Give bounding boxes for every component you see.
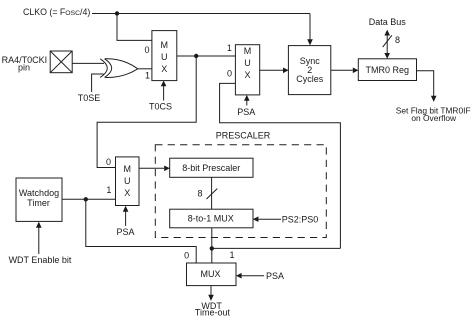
- svg-text:pin: pin: [18, 63, 30, 73]
- mux MUX2 PSA select: [235, 45, 259, 95]
- svg-text:M: M: [244, 46, 252, 56]
- svg-text:Cycles: Cycles: [296, 74, 324, 84]
- wire prescaler output loop to MUX2 input 0: [220, 83, 341, 248]
- label MUX3 input 0: [106, 157, 111, 167]
- svg-text:M: M: [123, 164, 131, 174]
- svg-text:8: 8: [197, 189, 202, 199]
- svg-text:8-to-1 MUX: 8-to-1 MUX: [188, 213, 234, 223]
- wire WDT junction to bottom MUX input 0: [86, 199, 196, 263]
- label PSA under MUX3: [116, 227, 134, 237]
- label PSA right of bottom MUX: [266, 271, 284, 281]
- wire T0CS arrow to MUX1: [163, 86, 165, 101]
- node prescaler output junction: [210, 246, 214, 250]
- wire 8-to-1 MUX output down to bottom MUX input 1: [211, 228, 213, 263]
- svg-text:X: X: [244, 70, 250, 80]
- svg-text:Data Bus: Data Bus: [369, 17, 407, 27]
- label T0CS: [149, 101, 172, 111]
- label CLKO (= Fosc/4): [23, 7, 90, 17]
- svg-text:PSA: PSA: [116, 227, 134, 237]
- svg-text:CLKO (= FOSC/4): CLKO (= FOSC/4): [23, 7, 90, 17]
- svg-text:TMR0 Reg: TMR0 Reg: [366, 65, 410, 75]
- box 8-to-1 MUX: [170, 209, 253, 228]
- svg-text:PRESCALER: PRESCALER: [216, 130, 271, 140]
- wire WDT time-out arrow: [210, 286, 212, 296]
- wire PSA arrow to MUX3: [125, 211, 127, 226]
- box prescaler dashed boundary: [155, 145, 326, 238]
- svg-text:U: U: [161, 52, 168, 62]
- label Set Flag bit TMR0IF on Overflow: [396, 106, 471, 123]
- bus slash 8: [383, 35, 392, 47]
- svg-text:8-bit Prescaler: 8-bit Prescaler: [182, 163, 240, 173]
- svg-text:T0CS: T0CS: [149, 101, 172, 111]
- mux MUX3 PSA select: [116, 157, 140, 206]
- mux bottom MUX PSA select: [187, 263, 237, 286]
- wire CLKO junction to MUX1 input 0: [117, 14, 152, 41]
- svg-text:PS2:PS0: PS2:PS0: [282, 214, 319, 224]
- svg-text:M: M: [161, 40, 169, 50]
- svg-text:X: X: [124, 188, 130, 198]
- wire CLKO horizontal: [92, 13, 310, 15]
- mux MUX1 T0CS select: [152, 31, 177, 81]
- svg-text:PSA: PSA: [266, 271, 284, 281]
- svg-text:on Overflow: on Overflow: [411, 113, 457, 123]
- svg-text:MUX: MUX: [201, 269, 221, 279]
- label PSA under MUX2: [237, 107, 255, 117]
- svg-text:Timer: Timer: [27, 198, 50, 208]
- wire prescaler output junction right: [212, 247, 341, 249]
- wire TMR0 output to overflow flag arrow: [417, 71, 434, 97]
- label MUX2 input 1: [227, 43, 232, 53]
- box Sync 2 Cycles: [288, 46, 330, 95]
- wire T0SE to XOR lower input: [92, 74, 104, 92]
- svg-text:1: 1: [229, 250, 234, 260]
- wire PSA arrow to bottom MUX: [242, 275, 264, 277]
- wire WDT Enable arrow: [38, 227, 40, 254]
- wire pin box to XOR input: [72, 62, 104, 64]
- wire PS2:PS0 arrow to 8-to-1 MUX: [258, 218, 281, 220]
- svg-text:U: U: [244, 58, 251, 68]
- svg-text:8: 8: [395, 35, 400, 45]
- label Data Bus: [369, 17, 407, 27]
- label RA4/T0CKI pin: [2, 55, 48, 72]
- wire MUX2 output to Sync with arrow: [260, 69, 283, 71]
- svg-text:Watchdog: Watchdog: [19, 188, 59, 198]
- svg-text:WDT Enable bit: WDT Enable bit: [9, 255, 72, 265]
- bus Data Bus double arrow: [386, 35, 388, 54]
- bus 8-bit Prescaler to 8-to-1 MUX: [211, 177, 213, 209]
- wire junction down-left to MUX3 input 0: [97, 56, 196, 168]
- wire Sync to TMR0 with arrow: [331, 69, 353, 71]
- label bottom MUX input 1: [229, 250, 234, 260]
- wire MUX3 to 8-bit Prescaler with arrow: [139, 167, 164, 169]
- pin RA4/T0CKI box: [50, 51, 72, 73]
- wire XOR output to MUX1 input 1: [138, 68, 152, 70]
- svg-text:0: 0: [144, 45, 149, 55]
- box Watchdog Timer: [16, 178, 62, 221]
- label MUX3 input 1: [106, 185, 111, 195]
- label WDT Time-out: [195, 301, 231, 318]
- svg-text:X: X: [161, 64, 167, 74]
- node CLKO junction: [115, 11, 119, 15]
- label MUX1 input 0: [144, 45, 149, 55]
- svg-text:Time-out: Time-out: [195, 308, 231, 318]
- label bottom MUX input 0: [184, 251, 189, 261]
- wire CLKO to Sync top with arrow: [309, 14, 311, 40]
- svg-text:0: 0: [227, 68, 232, 78]
- svg-text:0: 0: [106, 157, 111, 167]
- svg-text:U: U: [124, 176, 131, 186]
- svg-text:1: 1: [145, 71, 150, 81]
- label PS2:PS0: [282, 214, 319, 224]
- svg-text:1: 1: [106, 185, 111, 195]
- box 8-bit Prescaler: [170, 158, 253, 177]
- svg-text:PSA: PSA: [237, 107, 255, 117]
- svg-text:T0SE: T0SE: [78, 93, 101, 103]
- wire PSA arrow to MUX2: [246, 100, 248, 105]
- svg-text:0: 0: [184, 251, 189, 261]
- node MUX1 output junction: [194, 54, 198, 58]
- label MUX2 input 0: [227, 68, 232, 78]
- box TMR0 Reg: [358, 59, 416, 81]
- wire WDT output to MUX3 input 1: [62, 198, 116, 200]
- bus slash 8 prescaler: [207, 189, 218, 199]
- wire MUX1 output to MUX2 input 1: [177, 55, 236, 57]
- gate XOR U1: [100, 59, 107, 78]
- label PRESCALER: [216, 130, 271, 140]
- label MUX1 input 1: [145, 71, 150, 81]
- label WDT Enable bit: [9, 255, 72, 265]
- label T0SE: [78, 93, 101, 103]
- svg-text:1: 1: [227, 43, 232, 53]
- node WDT output junction: [84, 197, 88, 201]
